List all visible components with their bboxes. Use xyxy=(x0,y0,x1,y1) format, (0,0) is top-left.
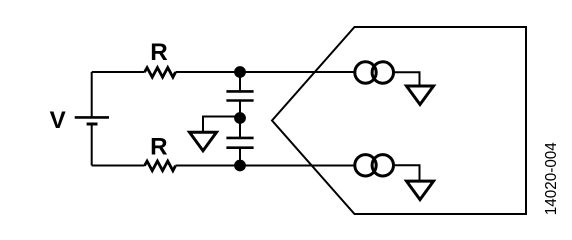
svg-text:R: R xyxy=(150,134,167,161)
svg-text:R: R xyxy=(150,39,167,66)
svg-text:V: V xyxy=(50,107,66,134)
svg-text:14020-004: 14020-004 xyxy=(543,142,560,215)
